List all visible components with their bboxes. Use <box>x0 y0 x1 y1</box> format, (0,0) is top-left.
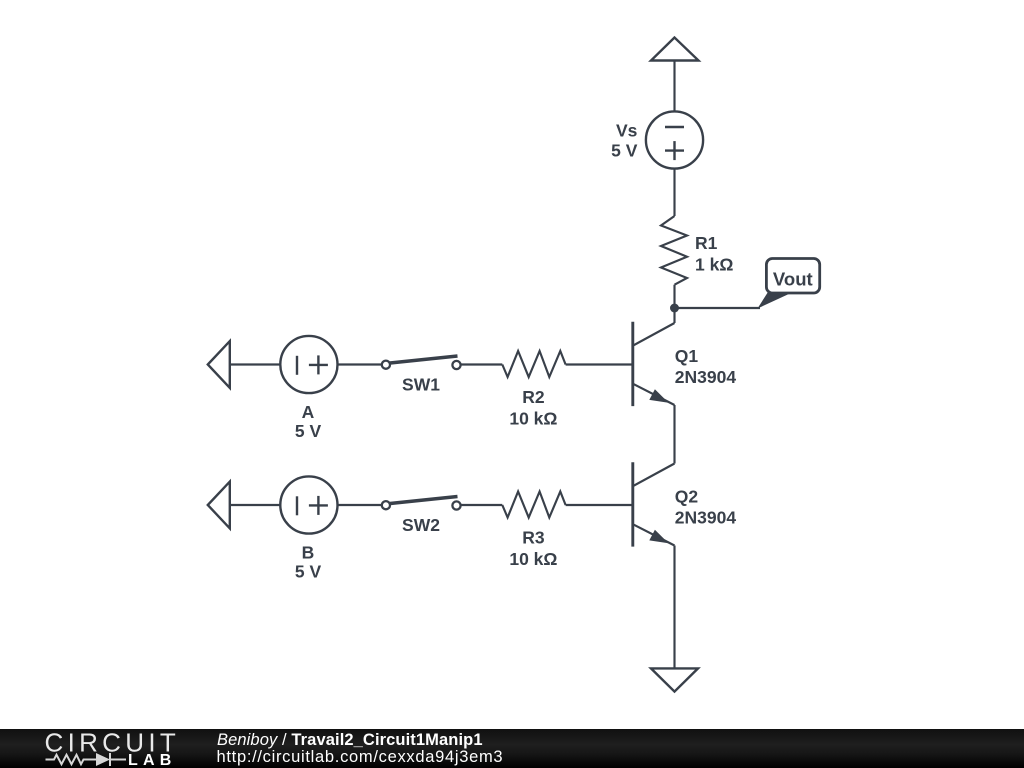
svg-text:5 V: 5 V <box>295 562 322 582</box>
svg-text:LAB: LAB <box>128 752 176 768</box>
wire SW2 to R3 <box>460 504 502 506</box>
wire node to Vout flag <box>675 307 761 309</box>
wire VCC to Vs <box>673 61 675 112</box>
wire Q1 emitter to Q2 collector <box>673 405 675 464</box>
svg-text:R2: R2 <box>522 387 545 407</box>
svg-text:Vs: Vs <box>616 121 638 141</box>
svg-text:Q1: Q1 <box>675 346 699 366</box>
transistor Q2 <box>633 462 675 546</box>
footer title text <box>217 732 483 748</box>
CircuitLab logo <box>0 729 200 768</box>
resistor R3 <box>502 492 565 518</box>
power flag VCC <box>651 38 699 61</box>
input flag B <box>208 482 230 529</box>
node junction dot <box>670 304 679 313</box>
wire R2 to Q1 base <box>566 363 633 365</box>
svg-text:Q2: Q2 <box>675 487 699 507</box>
voltage source A <box>280 336 337 393</box>
svg-text:10 kΩ: 10 kΩ <box>509 549 557 569</box>
svg-text:5 V: 5 V <box>611 141 638 161</box>
svg-text:1 kΩ: 1 kΩ <box>695 255 733 275</box>
svg-text:A: A <box>302 402 315 422</box>
wire A flag to source <box>230 363 281 365</box>
svg-text:10 kΩ: 10 kΩ <box>509 408 557 428</box>
svg-text:5 V: 5 V <box>295 421 322 441</box>
wire Q2 emitter to ground <box>673 546 675 669</box>
svg-text:R1: R1 <box>695 233 718 253</box>
resistor R2 <box>502 351 565 377</box>
wire B flag to source <box>230 504 281 506</box>
ground <box>651 668 698 691</box>
switch SW1 <box>382 356 461 369</box>
svg-text:2N3904: 2N3904 <box>675 367 737 387</box>
voltage source B <box>280 476 337 533</box>
resistor R1 <box>661 216 687 285</box>
footer url text <box>217 749 504 765</box>
wire R3 to Q2 base <box>566 504 633 506</box>
svg-text:R3: R3 <box>522 527 545 547</box>
wire Vs to R1 <box>673 169 675 216</box>
wire source A to SW1 <box>338 363 383 365</box>
switch SW2 <box>382 497 461 510</box>
svg-text:Vout: Vout <box>773 268 813 289</box>
input flag A <box>208 341 230 388</box>
footer bar <box>0 729 1024 768</box>
svg-text:2N3904: 2N3904 <box>675 508 737 528</box>
svg-text:SW2: SW2 <box>402 515 440 535</box>
wire SW1 to R2 <box>460 363 502 365</box>
svg-text:SW1: SW1 <box>402 375 440 395</box>
wire source B to SW2 <box>338 504 383 506</box>
svg-text:B: B <box>302 543 315 563</box>
transistor Q1 <box>633 308 675 406</box>
wire R1 to node <box>673 285 675 308</box>
voltage source Vs <box>646 111 703 168</box>
net flag Vout <box>758 292 792 309</box>
